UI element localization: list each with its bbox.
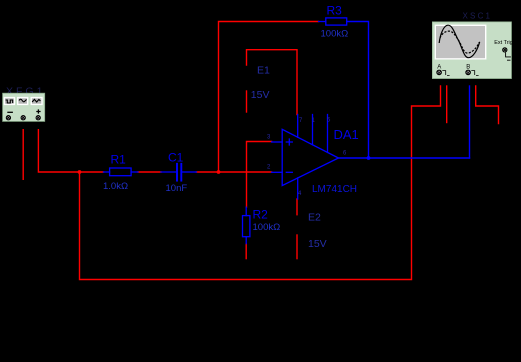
svg-text:A: A [437,65,441,71]
svg-text:R1: R1 [111,153,127,167]
svg-text:10nF: 10nF [166,183,188,194]
svg-text:E1: E1 [257,65,270,77]
svg-text:DA1: DA1 [334,127,359,142]
svg-text:E2: E2 [308,212,321,224]
svg-text:1.0kΩ: 1.0kΩ [103,181,128,192]
svg-text:C1: C1 [168,151,184,165]
svg-text:15V: 15V [308,238,327,250]
svg-text:B: B [466,65,470,71]
svg-text:Ext Trig: Ext Trig [494,40,513,46]
svg-text:15V: 15V [251,89,270,101]
svg-text:R2: R2 [253,208,269,222]
svg-text:R3: R3 [327,4,343,18]
svg-text:100kΩ: 100kΩ [253,222,281,233]
svg-text:LM741CH: LM741CH [312,184,357,195]
svg-text:100kΩ: 100kΩ [321,29,349,40]
svg-text:XSC1: XSC1 [463,12,493,21]
